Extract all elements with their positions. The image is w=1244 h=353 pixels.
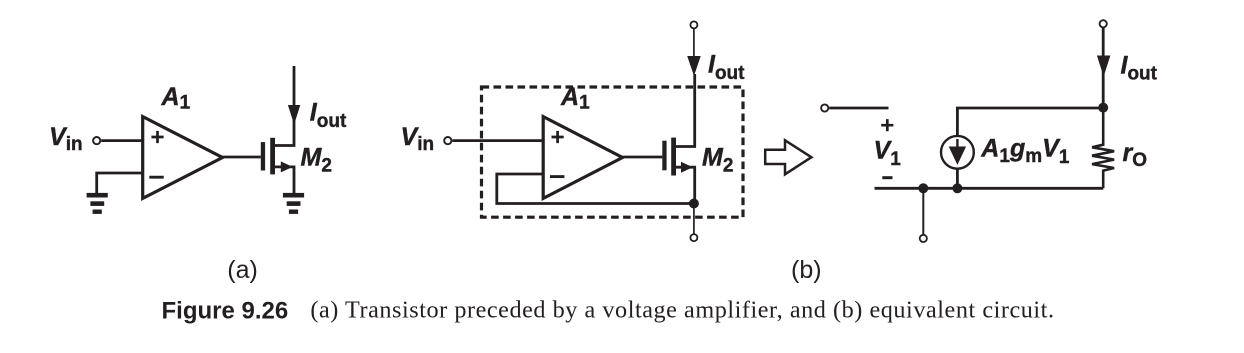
current arrow Iout (a) (288, 105, 300, 125)
wire op-amp output to gate of M2 (a) (222, 156, 261, 159)
svg-text:(a) Transistor preceded by a v: (a) Transistor preceded by a voltage amp… (310, 297, 1054, 324)
svg-text:Iout: Iout (310, 99, 347, 132)
svg-text:V1: V1 (874, 137, 902, 171)
current source arrow (down) (956, 139, 958, 151)
wire source of M2 down to ground (a) (273, 167, 294, 193)
open input wire top (right) (829, 107, 888, 110)
wire output node up to top terminal (right) (1102, 28, 1105, 108)
source arrow of M2 (b) (681, 162, 693, 173)
input terminal circle (right) (821, 104, 828, 111)
bottom terminal circle (b) (690, 234, 697, 241)
wire drain of M2 up to arrow (b) (674, 74, 695, 147)
svg-text:(b): (b) (791, 256, 822, 284)
current arrow Iout (right) (1097, 56, 1111, 77)
op-amp U2/A1 triangle (b) (543, 117, 622, 199)
plus sign of V1 (881, 119, 893, 131)
transistor M2 channel bar (a) (270, 138, 275, 175)
svg-text:M2: M2 (301, 144, 332, 177)
source arrow of M2 (a) (281, 161, 293, 172)
minus sign of V1 (882, 176, 892, 179)
wire minus input to ground (a) (97, 173, 143, 193)
ground symbol (a) left (87, 193, 108, 214)
thin wire from node to bottom terminal (b) (693, 204, 695, 234)
junction dot bottom-left (right) (918, 183, 928, 193)
op-amp U1/A1 triangle (a) (143, 117, 223, 199)
bottom rail wire (right) (875, 187, 1104, 190)
dependent current source A1gmV1 circle (941, 136, 974, 169)
svg-text:rO: rO (1123, 139, 1148, 171)
resistor rO zigzag (1092, 108, 1114, 188)
svg-text:A1: A1 (161, 83, 191, 114)
svg-text:Figure 9.26: Figure 9.26 (162, 297, 289, 324)
input terminal circle (b) node Vin (444, 137, 451, 144)
wire from junction down to bottom terminal (right) (922, 188, 924, 234)
junction dot current source bottom (right) (952, 183, 962, 193)
junction dot output node (right) (1098, 103, 1108, 113)
input terminal circle (a) node Vin (93, 137, 100, 144)
feedback wire minus input to source node (b) (497, 174, 694, 204)
transistor M2 channel bar (b) (671, 138, 676, 176)
op-amp plus input marking (b) (552, 131, 564, 143)
op-amp plus input marking (a) (151, 131, 163, 143)
top terminal circle (right) (1100, 20, 1107, 27)
svg-text:Vin: Vin (401, 123, 435, 155)
svg-text:Iout: Iout (708, 51, 745, 84)
wire Vin to op-amp + input (a) (101, 139, 142, 142)
transistor M2 gate bar (a) (261, 142, 265, 170)
dashed box around amplifier and M2 (b) (482, 87, 744, 217)
svg-text:M2: M2 (702, 144, 733, 177)
wire op-amp output to gate of M2 (b) (623, 156, 663, 159)
thin wire from top terminal to arrow (b) (693, 28, 695, 57)
wire current source bottom to bottom rail (right) (956, 168, 959, 188)
svg-text:A1: A1 (560, 83, 590, 114)
op-amp minus input marking (b) (550, 175, 564, 178)
op-amp minus input marking (a) (149, 176, 163, 179)
wire drain of M2 up (a) (273, 66, 294, 146)
bottom terminal circle (right) (920, 235, 927, 242)
svg-text:A1gmV1: A1gmV1 (980, 135, 1070, 169)
wire current source top to top rail (right) (957, 108, 1103, 136)
transistor M2 gate bar (b) (662, 141, 666, 171)
svg-text:Vin: Vin (49, 123, 83, 155)
ground symbol (a) right (283, 193, 304, 214)
junction dot at source node (b) (689, 199, 699, 209)
wire Vin to op-amp + input (b) (452, 139, 543, 142)
wire source of M2 down to node (b) (674, 167, 695, 203)
top terminal circle (b) (690, 21, 697, 28)
svg-text:Iout: Iout (1121, 51, 1158, 84)
big open arrow symbol (765, 140, 811, 174)
svg-text:(a): (a) (227, 256, 258, 284)
current arrow Iout (b) (687, 56, 701, 76)
